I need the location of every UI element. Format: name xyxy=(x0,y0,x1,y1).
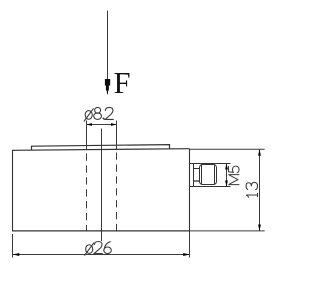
hidden bore line left (dashed) xyxy=(86,154,88,232)
arrowhead 26 left xyxy=(13,253,19,256)
extension line 8.2 right xyxy=(116,121,118,151)
connector washer top line xyxy=(194,168,200,170)
connector top line + M5 extension xyxy=(190,163,231,165)
connector neck line xyxy=(193,164,195,187)
force arrow F line xyxy=(107,11,109,83)
dimension text dia 8.2 xyxy=(84,107,113,121)
arrowhead 13 bottom xyxy=(258,225,261,232)
nut chamfer line left xyxy=(201,165,203,185)
arrowhead 8.2 left xyxy=(86,123,92,126)
dimension line 13 xyxy=(259,149,261,231)
extension line 26 left xyxy=(12,234,14,258)
extension line 26 right xyxy=(189,231,191,257)
dimension text dia 26 xyxy=(85,242,112,256)
nut chamfer line right xyxy=(214,165,216,185)
bottom extension line for 13 xyxy=(190,230,265,232)
arrowhead 8.2 right xyxy=(111,123,117,126)
svg-text:F: F xyxy=(114,65,131,100)
connector nut outline xyxy=(200,165,217,185)
connector bottom line + M5 extension xyxy=(190,186,231,188)
arrowhead 26 right xyxy=(183,253,190,256)
arrowhead M5 top xyxy=(225,163,228,169)
dimension line M5 xyxy=(226,164,228,187)
center line xyxy=(101,129,103,242)
body outline top edge xyxy=(13,149,190,151)
dimension line 8.2 xyxy=(87,124,117,126)
hidden bore line right (dashed) xyxy=(116,153,118,232)
force arrow F head xyxy=(105,79,110,94)
extension line 8.2 left xyxy=(86,121,88,150)
body outline bottom edge xyxy=(12,230,190,232)
connector washer bottom line xyxy=(194,180,200,182)
arrowhead M5 bottom xyxy=(225,181,228,187)
body outline right edge xyxy=(189,149,191,232)
body outline left edge xyxy=(12,150,14,232)
top plate xyxy=(32,145,170,151)
label 13 (rotated) xyxy=(246,182,257,197)
top extension line for 13 xyxy=(190,148,265,150)
dimension line 26 xyxy=(13,254,190,256)
label M5 (rotated) xyxy=(229,166,240,184)
arrowhead 13 top xyxy=(258,149,261,156)
